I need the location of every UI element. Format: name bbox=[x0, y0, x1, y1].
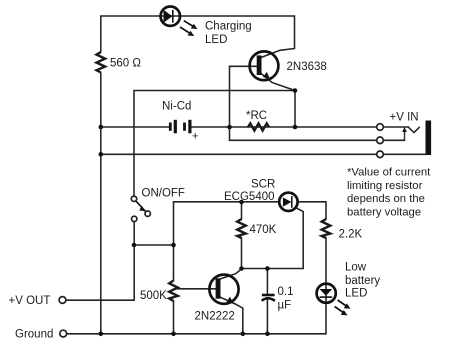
svg-text:limiting resistor: limiting resistor bbox=[347, 180, 423, 192]
svg-text:*Value of current: *Value of current bbox=[347, 167, 431, 179]
svg-text:*RC: *RC bbox=[246, 110, 267, 122]
svg-text:+V IN: +V IN bbox=[390, 112, 419, 124]
svg-text:560 Ω: 560 Ω bbox=[110, 58, 141, 70]
svg-text:+V OUT: +V OUT bbox=[9, 295, 51, 307]
svg-text:2.2K: 2.2K bbox=[339, 229, 363, 241]
svg-text:500K: 500K bbox=[140, 290, 167, 302]
svg-text:2N3638: 2N3638 bbox=[287, 61, 327, 73]
svg-text:SCR: SCR bbox=[251, 179, 275, 191]
svg-text:ON/OFF: ON/OFF bbox=[142, 188, 185, 200]
svg-text:Ground: Ground bbox=[15, 329, 53, 341]
svg-text:+: + bbox=[192, 131, 198, 143]
svg-text:0.1: 0.1 bbox=[278, 286, 294, 298]
svg-text:battery: battery bbox=[345, 275, 380, 287]
svg-text:470K: 470K bbox=[250, 224, 277, 236]
svg-text:Low: Low bbox=[345, 262, 367, 274]
svg-text:LED: LED bbox=[205, 34, 227, 46]
svg-text:2N2222: 2N2222 bbox=[195, 311, 235, 323]
svg-text:Ni-Cd: Ni-Cd bbox=[162, 101, 191, 113]
svg-text:battery voltage: battery voltage bbox=[347, 206, 421, 218]
svg-text:LED: LED bbox=[345, 288, 367, 300]
svg-text:µF: µF bbox=[278, 300, 292, 312]
svg-text:Charging: Charging bbox=[205, 21, 252, 33]
svg-text:ECG5400: ECG5400 bbox=[224, 191, 275, 203]
svg-text:depends on the: depends on the bbox=[347, 193, 425, 205]
